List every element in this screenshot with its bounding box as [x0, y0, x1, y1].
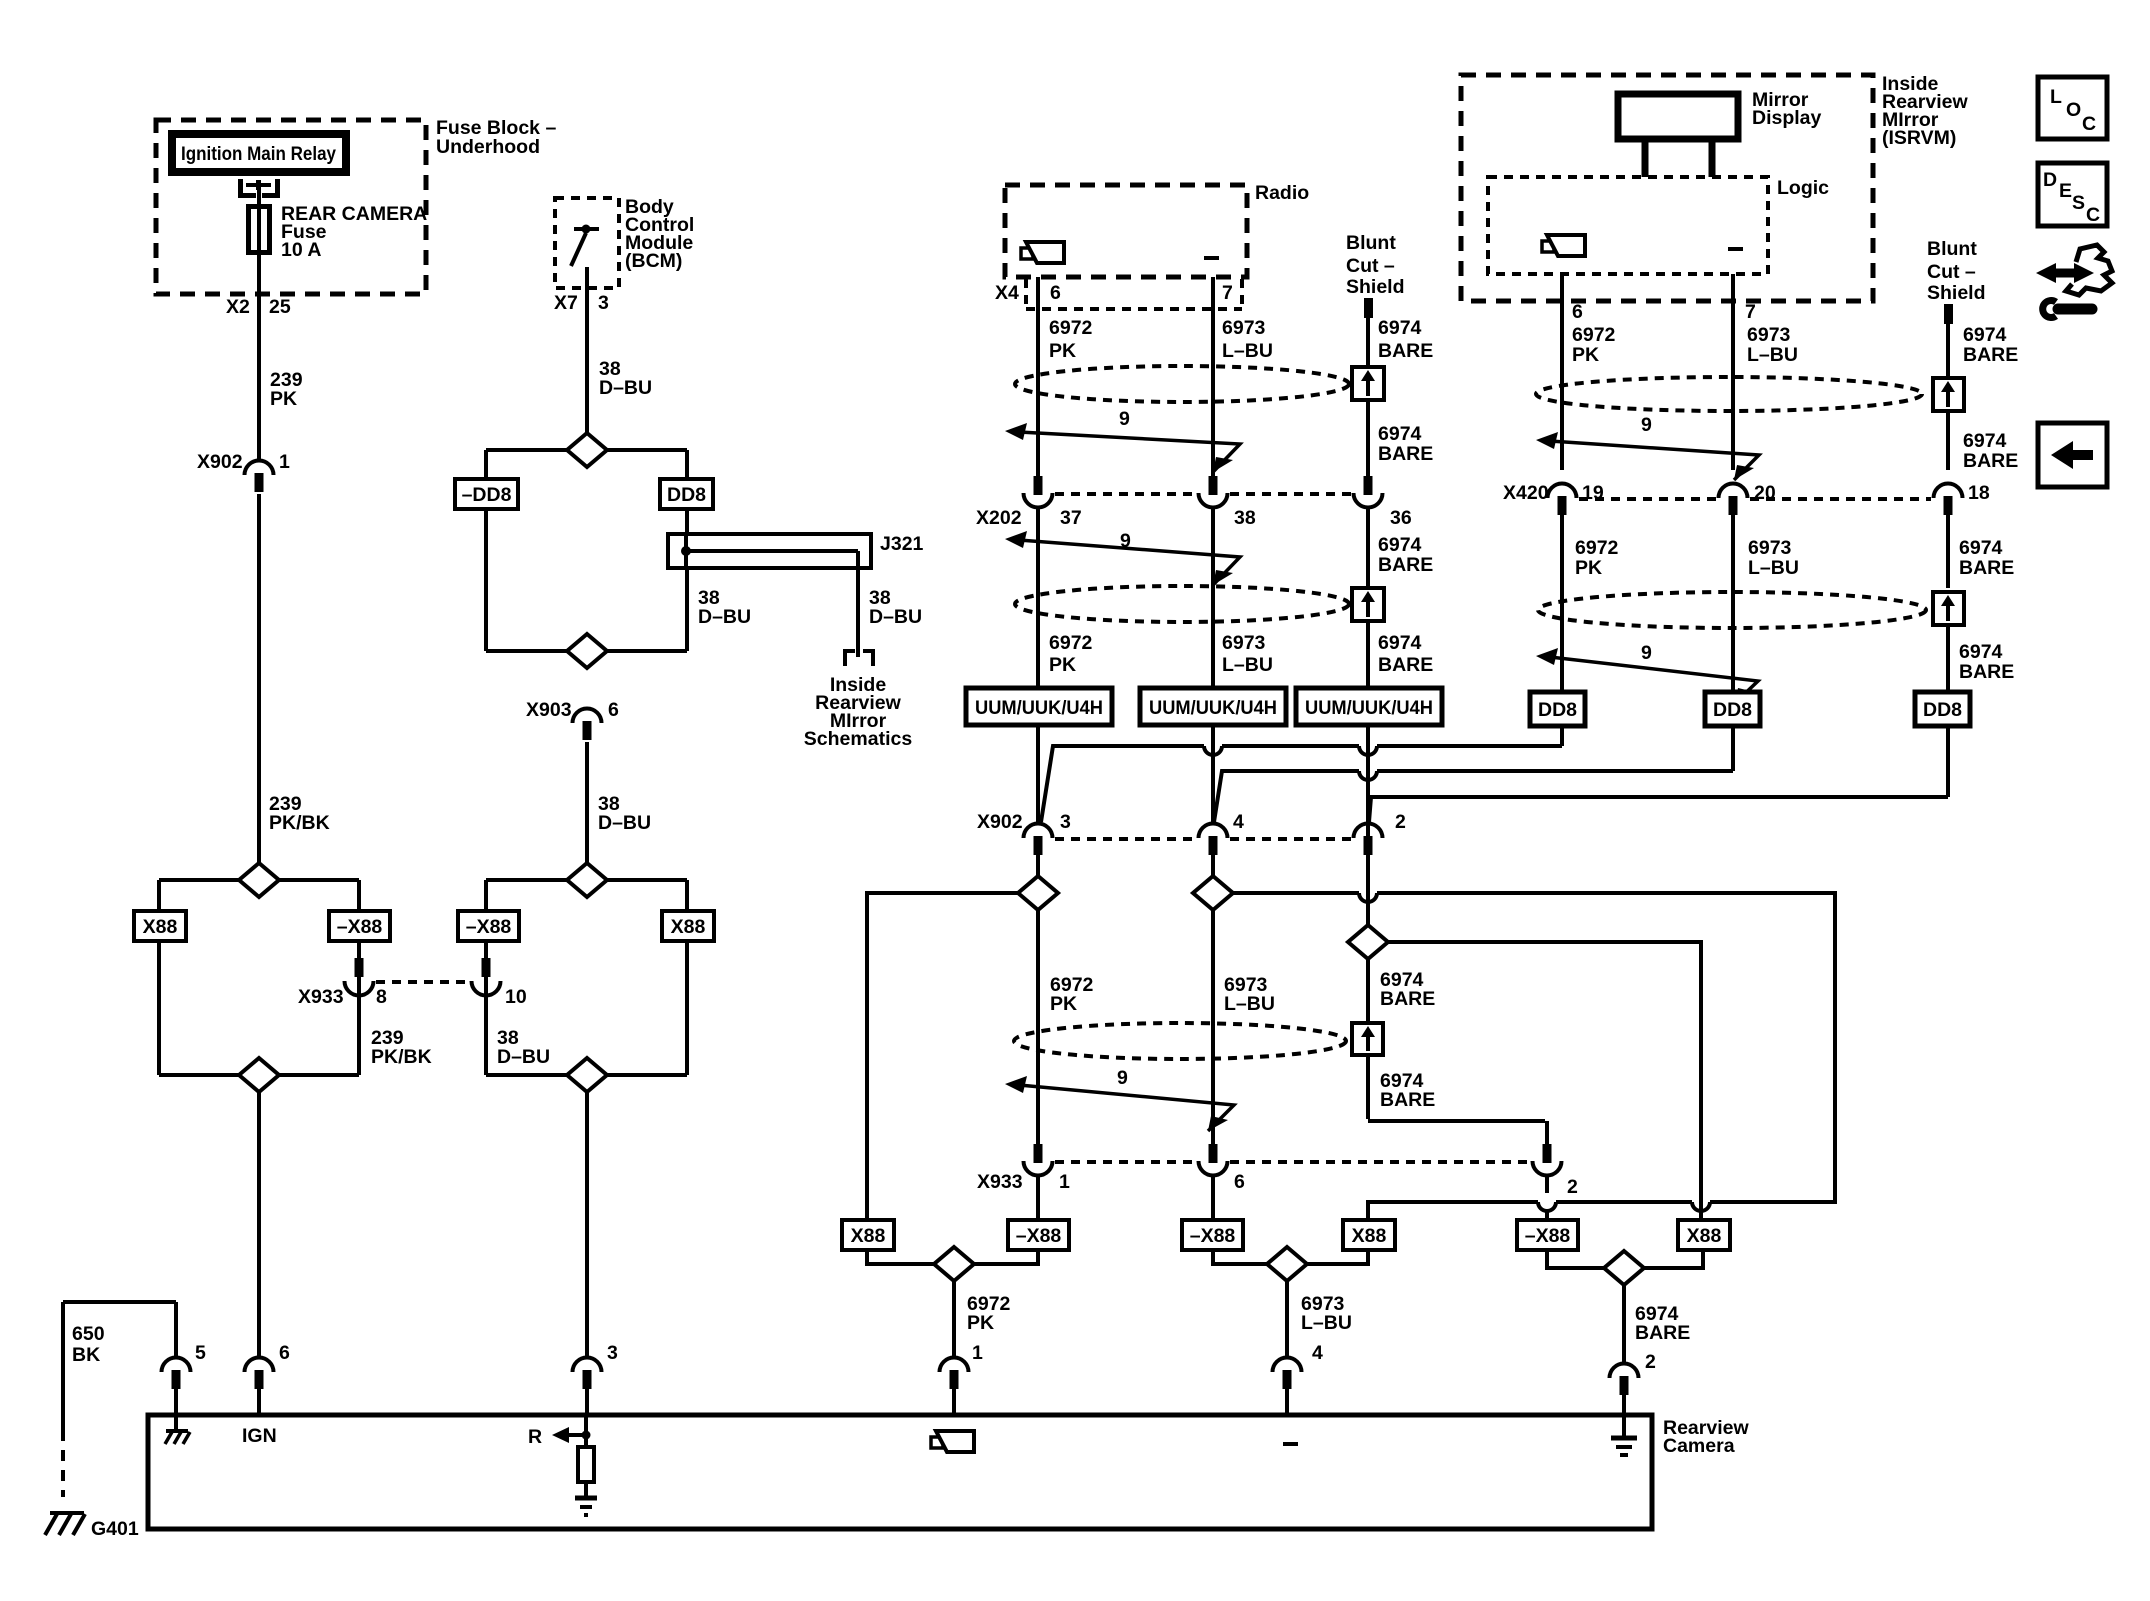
splice diamond bottom S2: [567, 634, 607, 668]
svg-text:BARE: BARE: [1378, 554, 1433, 576]
fuse block underhood dashed box: [156, 120, 426, 294]
route diamond 6974 right to X88: [1388, 942, 1701, 1220]
label Fuse Block - Underhood: [436, 117, 556, 158]
labels X4 pins 6 7: [995, 282, 1233, 304]
splice diamond bottom S3: [567, 1058, 607, 1092]
svg-text:PK: PK: [1575, 557, 1602, 579]
splice diamond 6974: [1348, 925, 1388, 959]
fuse holder bracket: [241, 179, 278, 196]
wire label 38 D-BU: [599, 358, 652, 399]
svg-text:1: 1: [279, 451, 290, 473]
svg-text:6: 6: [608, 699, 619, 721]
svg-text:BARE: BARE: [1635, 1322, 1690, 1344]
inline harness box -X88 (cam4 left): [1182, 1220, 1243, 1250]
inline harness box -DD8: [455, 479, 518, 509]
svg-text:6973: 6973: [1747, 324, 1791, 346]
svg-text:9: 9: [1641, 414, 1652, 436]
svg-text:Cut –: Cut –: [1927, 261, 1976, 283]
icon back arrow box: [2038, 423, 2107, 487]
label Rearview Camera: [1663, 1417, 1749, 1457]
svg-text:1: 1: [972, 1342, 983, 1364]
connector X202 pin 38: [1199, 476, 1228, 688]
svg-text:10: 10: [505, 986, 527, 1008]
connector X902 pin 3: [1024, 824, 1053, 877]
svg-text:X4: X4: [995, 282, 1019, 304]
svg-text:BARE: BARE: [1959, 557, 2014, 579]
labels ISRVM pins 6 7: [1572, 301, 1756, 323]
svg-text:DD8: DD8: [1538, 699, 1577, 721]
shield termination box (radio lower): [1352, 588, 1384, 688]
shield ellipse (ISRVM lower): [1538, 592, 1926, 628]
svg-text:5: 5: [195, 1342, 206, 1364]
svg-text:D–BU: D–BU: [497, 1046, 550, 1068]
off-page bracket to ISRVM schematics: [845, 651, 873, 666]
splice structure S3 rails (X88 right): [486, 880, 687, 1075]
svg-text:X2: X2: [226, 296, 250, 318]
svg-text:BARE: BARE: [1959, 661, 2014, 683]
svg-text:6974: 6974: [1378, 317, 1422, 339]
wire label 239 PK/BK: [269, 793, 330, 834]
wire 6974 down then right: [1368, 959, 1547, 1144]
labels X902 3 4 2: [977, 811, 1406, 833]
label Inside Rearview Mirror (ISRVM): [1882, 73, 1968, 149]
svg-text:6974: 6974: [1378, 423, 1422, 445]
svg-text:X903: X903: [526, 699, 572, 721]
connector X202 pin 36: [1354, 476, 1383, 586]
connector camera pin 1: [940, 1358, 969, 1416]
wire label 6974 BARE (below shield box): [1380, 1070, 1435, 1111]
label 650 BK: [72, 1323, 105, 1366]
svg-text:37: 37: [1060, 507, 1082, 529]
svg-text:–X88: –X88: [1525, 1225, 1571, 1247]
splice legs to diamond cam1: [867, 1250, 1038, 1264]
svg-text:6: 6: [279, 1342, 290, 1364]
svg-text:6974: 6974: [1963, 324, 2007, 346]
shield termination box (radio upper): [1352, 367, 1384, 476]
inline harness box -X88 (right): [329, 911, 390, 941]
dashed mating line X933: [1055, 1160, 1530, 1164]
svg-text:BARE: BARE: [1380, 988, 1435, 1010]
svg-text:C: C: [2086, 204, 2100, 226]
svg-text:DD8: DD8: [1923, 699, 1962, 721]
fuse F: REAR CAMERA Fuse 10 A: [249, 190, 270, 253]
svg-text:BARE: BARE: [1378, 340, 1433, 362]
splice structure S2 rails (DD8): [486, 450, 687, 651]
svg-text:10 A: 10 A: [281, 239, 321, 261]
harness option box UUM/UUK/U4H (3): [1296, 688, 1442, 725]
svg-text:6974: 6974: [1378, 632, 1422, 654]
routing line DD8-2 to X902-4: [1214, 726, 1733, 822]
dashed mating line X420: [1579, 497, 1931, 501]
relay output terminal bar: [246, 180, 271, 190]
inline harness box -X88 (cam2 left): [1517, 1220, 1578, 1250]
svg-text:X933: X933: [298, 986, 344, 1008]
logic dashed box: [1488, 177, 1829, 274]
twisted pair symbol 9 (radio lower): [1005, 530, 1240, 585]
inline harness box DD8 (3): [1915, 692, 1970, 726]
svg-text:S: S: [2072, 192, 2085, 214]
svg-text:19: 19: [1582, 482, 1604, 504]
svg-text:6: 6: [1050, 282, 1061, 304]
dashed mating line X202: [1055, 492, 1351, 496]
camera icon inside radio: [1021, 242, 1064, 263]
wire label 38 D-BU (mid): [598, 793, 651, 834]
connector X903 pin 6: [526, 699, 619, 740]
splice diamond top S101: [239, 863, 279, 897]
svg-text:–X88: –X88: [1190, 1225, 1236, 1247]
relay K? Ignition Main Relay box: [172, 134, 346, 172]
wire fuse to X902: [257, 251, 261, 461]
shield ellipse (ISRVM upper): [1536, 377, 1922, 411]
harness option box UUM/UUK/U4H (2): [1140, 688, 1286, 725]
labels X933 1 6 2: [977, 1171, 1578, 1198]
svg-text:D–BU: D–BU: [698, 606, 751, 628]
svg-text:L: L: [2050, 86, 2062, 108]
wire labels 6972 PK 6973 L-BU 6974 BARE (ISRVM row1): [1572, 324, 1616, 366]
BCM dashed box: [555, 198, 619, 288]
connector X933 pin 2: [1533, 1144, 1562, 1220]
routing line DD8-1 to X902-3: [1041, 726, 1562, 822]
minus terminal inside camera box: [1283, 1442, 1298, 1446]
svg-text:BK: BK: [72, 1344, 100, 1366]
svg-text:7: 7: [1222, 282, 1233, 304]
svg-text:PK: PK: [1050, 993, 1077, 1015]
dashed mating line X902: [1055, 837, 1351, 841]
svg-text:G401: G401: [91, 1518, 139, 1540]
inline harness box -X88 (cam1 right): [1008, 1220, 1069, 1250]
wire labels 6972 PK 6973 L-BU 6974 BARE (row1): [1049, 317, 1093, 362]
svg-text:L–BU: L–BU: [1748, 557, 1799, 579]
mirror display box: [1618, 89, 1822, 139]
svg-text:–DD8: –DD8: [462, 484, 512, 506]
label blunt cut shield (ISRVM): [1927, 238, 1986, 304]
svg-text:6974: 6974: [1963, 430, 2007, 452]
svg-text:X902: X902: [197, 451, 243, 473]
splice legs to diamond cam2: [1547, 1250, 1703, 1268]
svg-text:X88: X88: [671, 916, 706, 938]
route diamond 6972 left to X88: [867, 893, 1018, 1220]
wire 6972 diamond down: [1036, 910, 1040, 1144]
wire 6973 diamond down: [1211, 910, 1215, 1144]
twisted pair symbol 9 (camera side): [1005, 1067, 1234, 1131]
svg-text:(ISRVM): (ISRVM): [1882, 127, 1956, 149]
wire 6973 logic to X420: [1731, 274, 1735, 470]
svg-text:X88: X88: [1687, 1225, 1722, 1247]
svg-text:D: D: [2043, 169, 2057, 191]
wire label 38 D-BU (lower left): [497, 1027, 550, 1068]
svg-text:38: 38: [1234, 507, 1256, 529]
blunt cut stub 6974: [1364, 298, 1373, 368]
svg-text:36: 36: [1390, 507, 1412, 529]
icon LOC box: [2038, 77, 2107, 139]
minus terminal inside radio: [1204, 256, 1219, 260]
svg-text:6972: 6972: [1049, 632, 1093, 654]
svg-text:X933: X933: [977, 1171, 1023, 1193]
ISRVM outer dashed box: [1461, 75, 1873, 301]
camera icon inside logic: [1542, 235, 1585, 256]
svg-text:25: 25: [269, 296, 291, 318]
wire label 6974 BARE (above X420): [1963, 430, 2018, 472]
svg-text:Radio: Radio: [1255, 182, 1309, 204]
connector X902 pin 1: [197, 451, 290, 492]
splice diamond top S2: [567, 433, 607, 467]
svg-text:BARE: BARE: [1380, 1089, 1435, 1111]
wire UUM3 down to X902-2: [1366, 725, 1370, 925]
svg-text:BARE: BARE: [1378, 443, 1433, 465]
wire diamond cam2 to pin 2: [1624, 1285, 1690, 1373]
svg-text:6974: 6974: [1959, 537, 2003, 559]
svg-text:6974: 6974: [1378, 534, 1422, 556]
blunt cut stub 6974 (ISRVM): [1944, 304, 1953, 378]
resistor inside camera: [578, 1415, 594, 1497]
svg-text:Logic: Logic: [1777, 177, 1829, 199]
svg-text:9: 9: [1119, 408, 1130, 430]
svg-text:2: 2: [1395, 811, 1406, 833]
svg-text:Camera: Camera: [1663, 1435, 1735, 1457]
label IGN: [242, 1425, 277, 1447]
splice legs to diamond cam4: [1213, 1250, 1368, 1264]
connector camera pin 6: [245, 1342, 291, 1415]
svg-text:3: 3: [1060, 811, 1071, 833]
wire S3 to camera pin 3: [585, 1092, 589, 1358]
splice diamond 6972: [1018, 876, 1058, 910]
wire J321 right output: [856, 551, 860, 657]
label Inside Rearview Mirror Schematics: [804, 674, 913, 750]
inline harness box X88 (cam2 right): [1678, 1220, 1730, 1250]
wire labels row3 6972 PK 6973 L-BU 6974 BARE: [1050, 974, 1094, 1015]
svg-text:Shield: Shield: [1346, 276, 1405, 298]
connector X420 pin 18: [1934, 483, 1963, 560]
splice diamond cam2: [1604, 1251, 1644, 1285]
wires X420 to shield area: [1562, 560, 1948, 692]
inline harness box -X88 (S3 left): [458, 911, 519, 941]
twisted pair symbol 9 (ISRVM lower): [1536, 642, 1758, 703]
wire X903 down: [585, 742, 589, 863]
svg-text:20: 20: [1754, 482, 1776, 504]
svg-text:6974: 6974: [1959, 641, 2003, 663]
connector X420 pin 20: [1719, 483, 1748, 560]
svg-text:Display: Display: [1752, 107, 1822, 129]
svg-text:2: 2: [1645, 1351, 1656, 1373]
label Body Control Module (BCM): [625, 196, 694, 272]
svg-text:L–BU: L–BU: [1222, 654, 1273, 676]
svg-text:6972: 6972: [1572, 324, 1616, 346]
connector X902 pin 2: [1354, 824, 1383, 926]
shield ellipse (radio lower): [1015, 586, 1349, 622]
splice structure S101 rails: [159, 880, 359, 1075]
svg-text:J321: J321: [880, 533, 924, 555]
svg-text:6973: 6973: [1222, 632, 1266, 654]
svg-text:650: 650: [72, 1323, 105, 1345]
svg-text:X202: X202: [976, 507, 1022, 529]
inline harness box DD8 (2): [1705, 692, 1760, 726]
connector camera pin 5: [162, 1342, 207, 1415]
inline harness box DD8 (1): [1530, 692, 1585, 726]
wire label 239 PK: [270, 369, 303, 410]
label REAR CAMERA Fuse 10 A: [281, 203, 427, 261]
connector X933 pin 10: [472, 958, 501, 996]
svg-text:PK: PK: [1049, 654, 1076, 676]
wire X902-1 down: [257, 494, 261, 863]
dashed mating line X933 8-10: [376, 980, 469, 984]
svg-text:L–BU: L–BU: [1222, 340, 1273, 362]
twisted pair symbol 9 (radio upper): [1005, 408, 1240, 472]
wire diamond cam4 to pin 4: [1287, 1281, 1352, 1364]
connector X933 pin 8: [345, 958, 374, 996]
svg-text:9: 9: [1117, 1067, 1128, 1089]
wire label 38 D-BU (below DD8): [698, 587, 751, 628]
splice diamond cam4: [1267, 1247, 1307, 1281]
svg-text:6: 6: [1572, 301, 1583, 323]
inline harness box X88 (cam4 right): [1343, 1220, 1395, 1250]
svg-text:9: 9: [1641, 642, 1652, 664]
splice diamond 6973: [1193, 876, 1233, 910]
shield ellipse (camera side): [1014, 1023, 1346, 1059]
svg-text:7: 7: [1745, 301, 1756, 323]
icon swap arrows and wrench: [2036, 245, 2112, 318]
twisted pair symbol 9 (ISRVM upper): [1536, 414, 1759, 480]
svg-text:X88: X88: [143, 916, 178, 938]
svg-text:BARE: BARE: [1963, 450, 2018, 472]
svg-text:UUM/UUK/U4H: UUM/UUK/U4H: [1305, 697, 1433, 719]
svg-text:4: 4: [1312, 1342, 1323, 1364]
svg-text:(BCM): (BCM): [625, 250, 682, 272]
svg-text:Blunt: Blunt: [1346, 232, 1396, 254]
svg-text:C: C: [2082, 113, 2096, 135]
splice diamond cam1: [934, 1247, 974, 1281]
harness option box UUM/UUK/U4H (1): [966, 688, 1112, 725]
svg-text:BARE: BARE: [1378, 654, 1433, 676]
wire BCM X7-3 down: [585, 267, 589, 433]
svg-text:Underhood: Underhood: [436, 136, 540, 158]
svg-text:X420: X420: [1503, 482, 1549, 504]
wire S101 to camera pin 6: [257, 1092, 261, 1358]
label blunt cut shield (radio): [1346, 232, 1405, 298]
splice block J321: [668, 533, 924, 568]
svg-text:D–BU: D–BU: [869, 606, 922, 628]
earth ground inside camera (reverse input): [575, 1498, 597, 1515]
labels X202 37 38 36: [976, 507, 1412, 529]
svg-text:D–BU: D–BU: [598, 812, 651, 834]
svg-text:R: R: [528, 1426, 542, 1448]
svg-text:Schematics: Schematics: [804, 728, 913, 750]
splice diamond top S3: [567, 863, 607, 897]
svg-text:X902: X902: [977, 811, 1023, 833]
wire label 6974 BARE (above X202): [1378, 423, 1433, 465]
svg-text:Cut –: Cut –: [1346, 255, 1395, 277]
svg-text:DD8: DD8: [667, 484, 706, 506]
wire labels row2 6972 PK 6973 L-BU 6974 BARE: [1049, 632, 1093, 676]
connector X7 pin 3 labels: [554, 292, 609, 314]
ground G401 symbol: [45, 1513, 139, 1540]
wire label 6974 BARE (below X202): [1378, 534, 1433, 576]
svg-text:–X88: –X88: [466, 916, 512, 938]
chassis ground inside camera (pin5): [165, 1415, 190, 1444]
labels X420 19 20 18: [1503, 482, 1990, 504]
svg-text:6973: 6973: [1222, 317, 1266, 339]
svg-text:Shield: Shield: [1927, 282, 1986, 304]
svg-text:–X88: –X88: [1016, 1225, 1062, 1247]
inline harness box DD8: [660, 479, 713, 509]
camera icon inside rearview camera box: [931, 1431, 974, 1452]
svg-text:–X88: –X88: [337, 916, 383, 938]
inline harness box X88 (left): [134, 911, 186, 941]
wire UUM1 down to X902-3: [1036, 725, 1040, 824]
connector camera pin 2: [1610, 1364, 1639, 1416]
svg-text:3: 3: [607, 1342, 618, 1364]
wire 6973 radio to X202: [1211, 277, 1215, 476]
connector X202 pin 37: [1024, 476, 1053, 688]
svg-text:BARE: BARE: [1963, 344, 2018, 366]
svg-text:Blunt: Blunt: [1927, 238, 1977, 260]
svg-text:6973: 6973: [1748, 537, 1792, 559]
labels X933 8 10: [298, 986, 527, 1008]
svg-text:PK/BK: PK/BK: [371, 1046, 432, 1068]
svg-text:PK: PK: [270, 388, 297, 410]
svg-text:PK: PK: [1049, 340, 1076, 362]
svg-text:L–BU: L–BU: [1224, 993, 1275, 1015]
radio dashed box: [1005, 182, 1309, 277]
connector camera pin 4: [1273, 1358, 1302, 1416]
switch inside BCM: [571, 225, 599, 267]
svg-text:PK/BK: PK/BK: [269, 812, 330, 834]
connector X4 dashed outline: [1026, 279, 1242, 309]
connector X420 pin 19: [1548, 483, 1577, 560]
svg-text:PK: PK: [1572, 344, 1599, 366]
splice diamond bottom S101: [239, 1058, 279, 1092]
wire label 239 PK/BK (lower): [371, 1027, 432, 1068]
svg-text:6972: 6972: [1575, 537, 1619, 559]
wire UUM2 down to X902-4: [1211, 725, 1215, 824]
shield termination box (camera side): [1352, 1023, 1383, 1055]
shield ellipse (radio upper): [1015, 366, 1349, 402]
svg-text:UUM/UUK/U4H: UUM/UUK/U4H: [1149, 697, 1277, 719]
svg-text:E: E: [2059, 180, 2072, 202]
shield termination box (ISRVM lower): [1933, 592, 1964, 692]
svg-text:6972: 6972: [1049, 317, 1093, 339]
inline harness box X88 (S3 right): [662, 911, 714, 941]
svg-text:X88: X88: [851, 1225, 886, 1247]
connector X933 pin 6: [1199, 1144, 1228, 1220]
svg-text:X7: X7: [554, 292, 578, 314]
connector X902 pin 4: [1199, 824, 1228, 877]
svg-text:Ignition Main Relay: Ignition Main Relay: [181, 143, 336, 165]
svg-text:18: 18: [1968, 482, 1990, 504]
svg-text:O: O: [2066, 99, 2081, 121]
connector X2 pin 25 labels: [226, 296, 291, 318]
shield termination box (ISRVM upper): [1933, 378, 1964, 470]
connector X933 pin 1: [1024, 1144, 1053, 1220]
svg-text:L–BU: L–BU: [1301, 1312, 1352, 1334]
label R and arrow: [528, 1426, 591, 1448]
wire label 6974 BARE (ISRVM lower): [1959, 641, 2014, 683]
svg-text:UUM/UUK/U4H: UUM/UUK/U4H: [975, 697, 1103, 719]
svg-text:2: 2: [1567, 1176, 1578, 1198]
svg-text:8: 8: [376, 986, 387, 1008]
wire 6972 logic to X420: [1560, 274, 1564, 470]
svg-text:1: 1: [1059, 1171, 1070, 1193]
minus terminal inside logic: [1728, 247, 1743, 251]
ground wire 650 BK path: [63, 1302, 176, 1497]
icon DESC box: [2038, 163, 2107, 226]
svg-text:IGN: IGN: [242, 1425, 277, 1447]
svg-text:D–BU: D–BU: [599, 377, 652, 399]
svg-text:4: 4: [1233, 811, 1244, 833]
wire diamond cam1 to pin 1: [954, 1281, 1011, 1364]
routing line DD8-3 to X902-2: [1369, 726, 1948, 822]
rearview camera box: [148, 1415, 1652, 1529]
wire 6972 radio to X202: [1036, 277, 1040, 476]
